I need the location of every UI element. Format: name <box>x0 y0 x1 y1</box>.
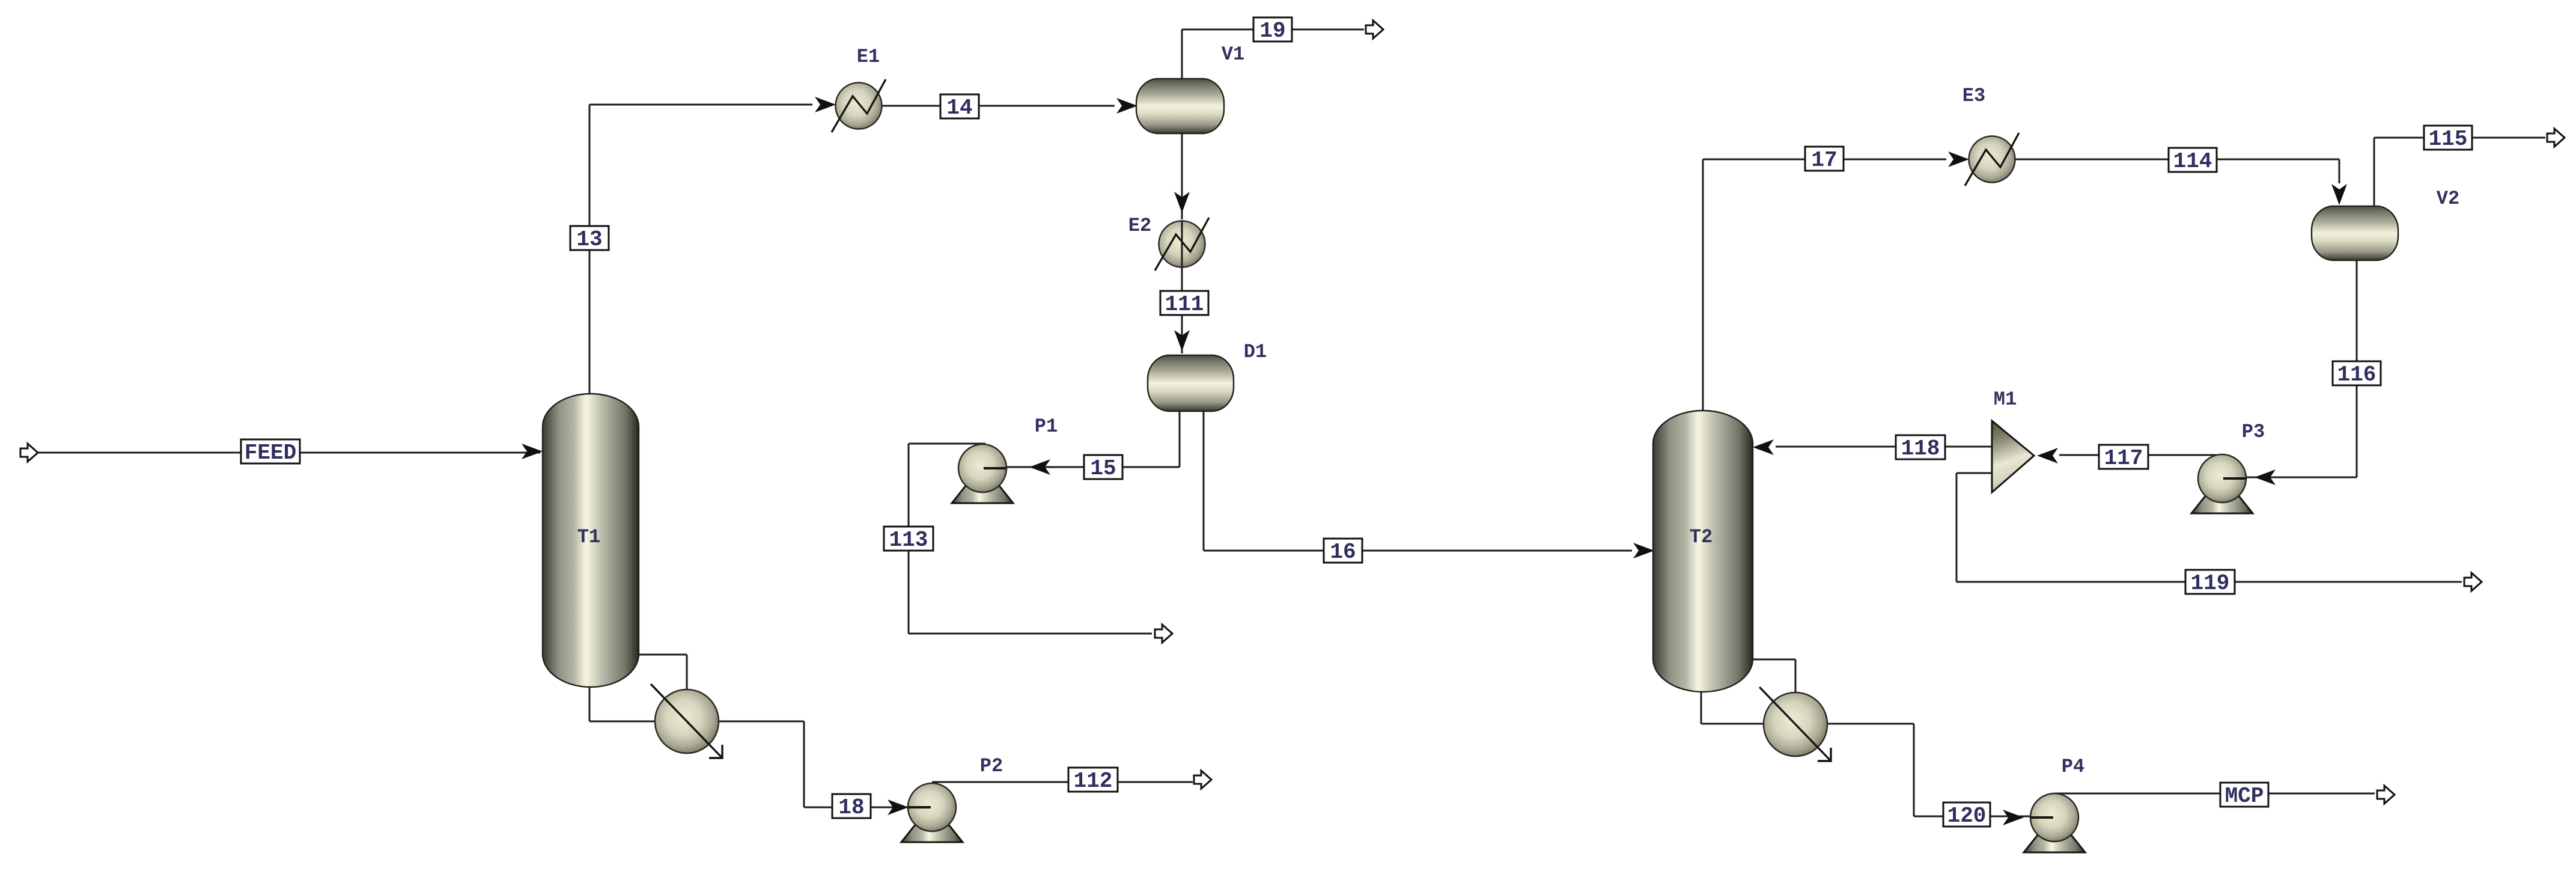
label E2 <box>1128 215 1151 237</box>
arrowhead 15 into P1 <box>1029 459 1050 475</box>
wire stream 17 <box>1703 159 1946 412</box>
wire stream 19 <box>1182 29 1364 81</box>
stream label MCP <box>2220 783 2268 808</box>
svg-text:115: 115 <box>2429 127 2468 151</box>
label E3 <box>1962 85 1985 107</box>
svg-text:117: 117 <box>2104 446 2143 471</box>
wire stream 111 <box>1181 267 1183 353</box>
svg-text:T1: T1 <box>577 526 600 548</box>
arrowhead 14 into V1 <box>1116 98 1137 114</box>
svg-text:18: 18 <box>838 795 864 820</box>
heat exchanger E2 <box>1155 218 1209 270</box>
wire T1 bottoms / stream 18 <box>589 685 933 807</box>
wire stream 15 <box>985 409 1180 467</box>
wire stream 114 <box>2015 159 2339 183</box>
arrowhead 117 into M1 <box>2037 448 2058 463</box>
svg-text:13: 13 <box>576 227 602 252</box>
wire stream 117 <box>2059 454 2222 456</box>
svg-text:V2: V2 <box>2437 188 2459 210</box>
wire T1 reboiler loop <box>639 655 687 691</box>
stream label 19 <box>1253 17 1292 43</box>
stream label FEED <box>241 439 300 465</box>
wire stream 119 <box>1956 473 2462 582</box>
drum V2 <box>2312 206 2398 260</box>
reboiler circle T2 reboiler <box>1759 687 1831 761</box>
wire stream FEED <box>35 452 540 454</box>
svg-text:E1: E1 <box>857 46 880 68</box>
label D1 <box>1244 341 1267 363</box>
arrowhead V1 outlet into E2 <box>1174 192 1190 213</box>
wire P4 outlet / stream MCP <box>2054 793 2375 795</box>
stream label 14 <box>940 94 979 120</box>
svg-text:P2: P2 <box>980 755 1003 777</box>
column T1 <box>543 394 639 687</box>
reboiler circle T1 reboiler <box>651 684 722 758</box>
heat exchanger E3 <box>1965 133 2019 186</box>
wire stream line crossing E2 <box>1181 221 1183 267</box>
wire T2 bottoms / stream 120 <box>1701 690 2056 816</box>
export arrow stream 113 <box>1155 625 1172 643</box>
svg-text:V1: V1 <box>1222 43 1244 66</box>
wire stream 16 <box>1204 409 1632 551</box>
label P1 <box>1035 415 1058 438</box>
stream label 16 <box>1324 539 1362 564</box>
label P2 <box>980 755 1003 777</box>
svg-text:118: 118 <box>1901 436 1940 461</box>
export arrow stream MCP <box>2377 786 2395 804</box>
wire stream 116 <box>2224 258 2357 477</box>
splitter M1 <box>1992 421 2034 492</box>
wire P1 outlet / stream 113 <box>909 444 1152 634</box>
label P4 <box>2062 756 2084 778</box>
svg-text:14: 14 <box>946 96 972 120</box>
arrowhead 118 into T2 <box>1753 439 1774 455</box>
export arrow stream 119 <box>2464 573 2482 591</box>
stream label 114 <box>2169 148 2217 174</box>
wire T2 reboiler loop <box>1753 659 1795 694</box>
svg-text:P3: P3 <box>2242 421 2265 443</box>
svg-text:FEED: FEED <box>245 441 296 465</box>
feed import arrow <box>20 444 38 462</box>
stream label 17 <box>1805 147 1844 173</box>
arrowhead 16 into T2 <box>1633 543 1654 558</box>
arrowhead 111 into D1 <box>1174 330 1190 351</box>
drum V1 <box>1136 79 1224 133</box>
svg-text:112: 112 <box>1074 769 1113 793</box>
label V1 <box>1222 43 1244 66</box>
svg-text:T2: T2 <box>1690 526 1713 548</box>
svg-text:P4: P4 <box>2062 756 2084 778</box>
arrowhead 116 into P3 <box>2255 469 2276 485</box>
stream label 116 <box>2333 361 2381 387</box>
label P3 <box>2242 421 2265 443</box>
arrowhead 114 into V2 <box>2331 184 2347 205</box>
arrowhead 13 into E1 <box>815 97 836 112</box>
drum D1 <box>1148 355 1234 411</box>
svg-text:15: 15 <box>1090 456 1116 481</box>
arrowhead 17 into E3 <box>1948 151 1969 167</box>
svg-text:M1: M1 <box>1994 388 2017 411</box>
pump P2 <box>901 783 963 842</box>
svg-text:D1: D1 <box>1244 341 1267 363</box>
pump P3 <box>2191 454 2253 513</box>
stream label 113 <box>884 527 933 552</box>
wire stream 115 <box>2374 138 2545 208</box>
stream label 117 <box>2099 445 2148 471</box>
wire stream 13 <box>589 105 812 396</box>
export arrow stream 115 <box>2547 129 2565 147</box>
svg-text:E3: E3 <box>1962 85 1985 107</box>
wire V1 to E2 <box>1181 132 1183 219</box>
label M1 <box>1994 388 2017 411</box>
stream label 15 <box>1084 455 1122 481</box>
stream label 13 <box>570 226 609 252</box>
svg-text:120: 120 <box>1947 804 1987 828</box>
stream label 115 <box>2424 126 2472 151</box>
svg-text:113: 113 <box>889 528 928 552</box>
pump P4 <box>2024 793 2085 852</box>
label V2 <box>2437 188 2459 210</box>
column T2 <box>1653 411 1753 692</box>
stream label 18 <box>832 794 871 820</box>
svg-text:MCP: MCP <box>2225 784 2264 808</box>
svg-text:114: 114 <box>2173 149 2212 174</box>
svg-text:119: 119 <box>2191 571 2230 596</box>
wire stream 14 <box>882 105 1115 107</box>
label E1 <box>857 46 880 68</box>
arrowhead FEED into T1 <box>522 444 543 459</box>
export arrow stream 112 <box>1194 771 1211 789</box>
svg-text:E2: E2 <box>1128 215 1151 237</box>
stream label 111 <box>1160 291 1208 317</box>
svg-text:111: 111 <box>1165 292 1204 317</box>
svg-text:116: 116 <box>2337 362 2377 387</box>
pump P1 <box>952 444 1013 503</box>
stream label 119 <box>2185 570 2235 596</box>
wire stream 118 <box>1776 446 1992 448</box>
stream label 118 <box>1896 435 1945 461</box>
svg-text:17: 17 <box>1811 148 1837 173</box>
svg-text:16: 16 <box>1330 540 1356 564</box>
wire P2 outlet / stream 112 <box>932 781 1193 783</box>
svg-text:19: 19 <box>1259 19 1285 43</box>
heat exchanger E1 <box>832 79 886 132</box>
arrowhead 120 into P4 <box>2003 810 2024 825</box>
stream label 112 <box>1068 768 1118 793</box>
svg-text:P1: P1 <box>1035 415 1058 438</box>
stream label 120 <box>1943 802 1990 828</box>
arrowhead 18 into P2 <box>888 799 909 815</box>
export arrow stream 19 <box>1366 20 1383 38</box>
